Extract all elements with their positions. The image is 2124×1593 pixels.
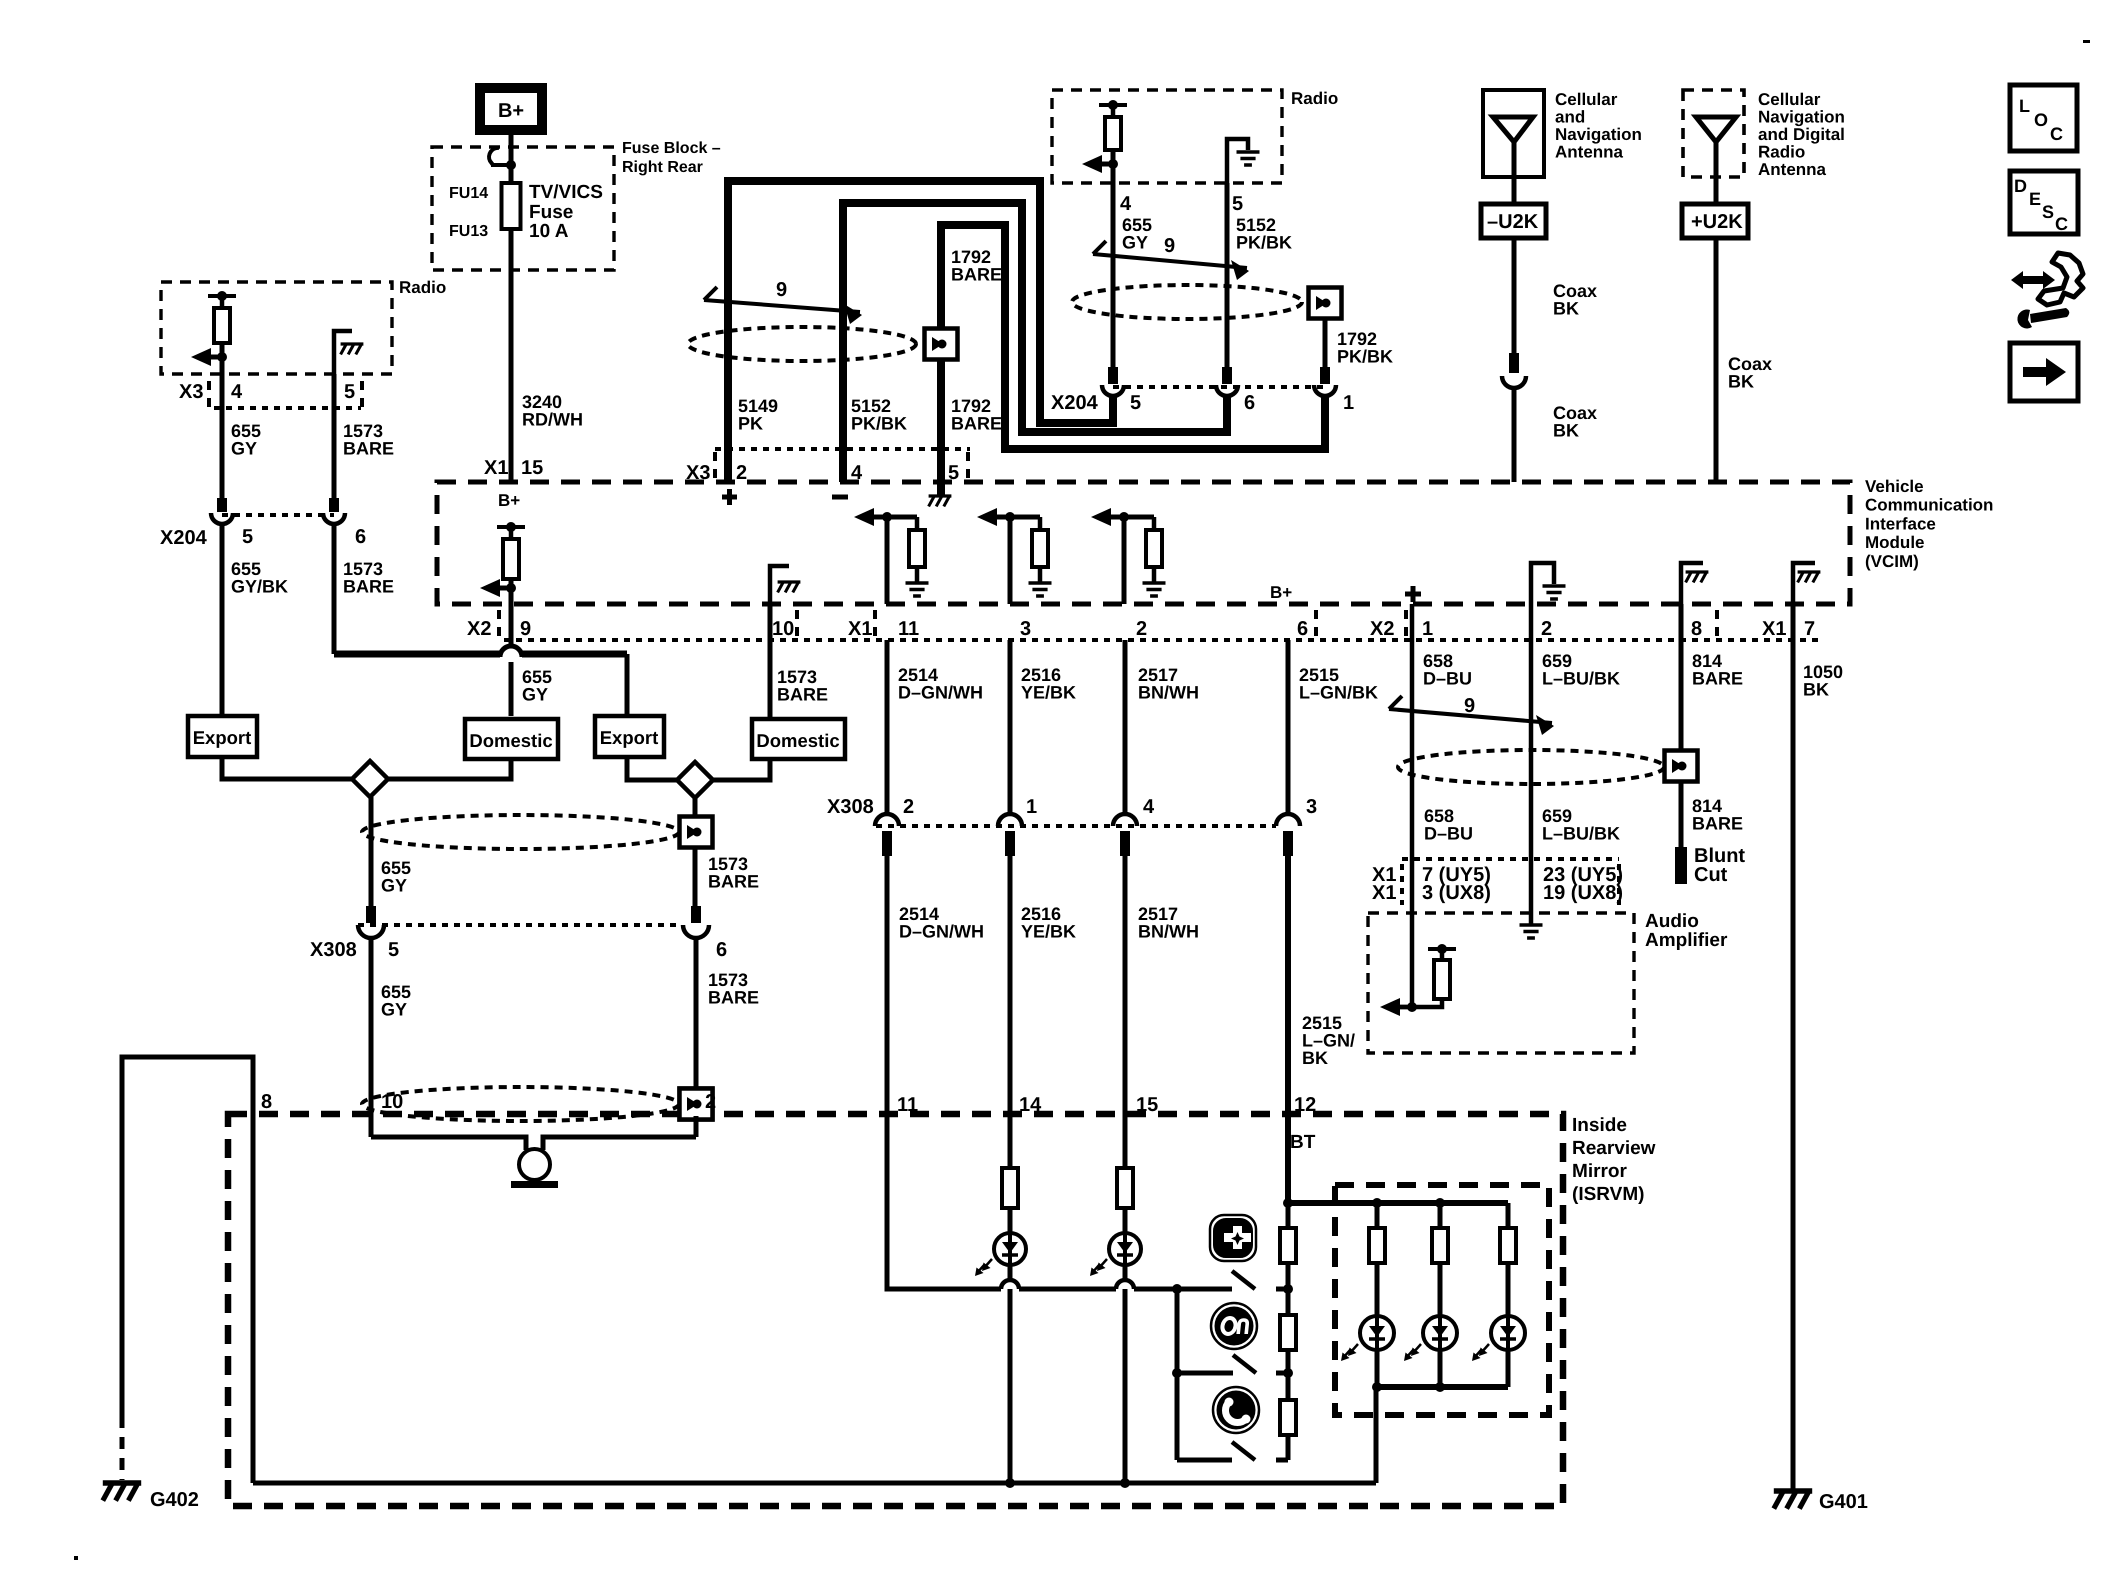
svg-text:D–GN/WH: D–GN/WH (898, 683, 983, 703)
svg-text:Right Rear: Right Rear (622, 159, 703, 176)
svg-text:GY/BK: GY/BK (231, 577, 288, 597)
svg-text:PK/BK: PK/BK (1337, 347, 1393, 367)
svg-text:4: 4 (1120, 193, 1132, 215)
svg-text:2: 2 (903, 796, 914, 818)
svg-text:X204: X204 (1051, 392, 1099, 414)
svg-text:BARE: BARE (1692, 669, 1743, 689)
svg-text:GY: GY (1122, 233, 1148, 253)
svg-text:B+: B+ (498, 491, 520, 510)
svg-text:BK: BK (1553, 421, 1579, 441)
svg-text:15: 15 (1136, 1094, 1158, 1116)
svg-text:BARE: BARE (1692, 814, 1743, 834)
svg-text:YE/BK: YE/BK (1021, 922, 1076, 942)
svg-text:BARE: BARE (777, 685, 828, 705)
svg-text:FU14: FU14 (449, 185, 488, 202)
svg-text:X204: X204 (160, 527, 208, 549)
svg-text:Inside: Inside (1572, 1115, 1627, 1136)
svg-text:BARE: BARE (708, 988, 759, 1008)
svg-text:3: 3 (1020, 618, 1031, 640)
svg-text:X1: X1 (1372, 882, 1396, 904)
svg-text:X308: X308 (310, 939, 357, 961)
svg-text:O: O (2034, 110, 2048, 130)
svg-text:6: 6 (355, 526, 366, 548)
svg-text:Cellular: Cellular (1555, 90, 1618, 109)
svg-text:Audio: Audio (1645, 911, 1699, 932)
svg-text:Export: Export (193, 727, 252, 748)
svg-text:L–BU/BK: L–BU/BK (1542, 824, 1620, 844)
svg-text:X3: X3 (179, 381, 203, 403)
svg-text:X308: X308 (827, 796, 874, 818)
svg-text:Cut: Cut (1694, 864, 1728, 886)
svg-text:–U2K: –U2K (1487, 211, 1539, 233)
svg-text:Interface: Interface (1865, 514, 1936, 533)
svg-text:BARE: BARE (708, 872, 759, 892)
svg-text:15: 15 (521, 457, 543, 479)
svg-text:PK/BK: PK/BK (1236, 233, 1292, 253)
svg-text:7: 7 (1804, 618, 1815, 640)
svg-text:BK: BK (1803, 680, 1829, 700)
svg-text:TV/VICS: TV/VICS (529, 182, 603, 203)
svg-text:Module: Module (1865, 533, 1925, 552)
svg-text:D–GN/WH: D–GN/WH (899, 922, 984, 942)
svg-text:4: 4 (1143, 796, 1155, 818)
svg-text:8: 8 (261, 1091, 272, 1113)
svg-text:BARE: BARE (343, 577, 394, 597)
svg-text:and: and (1555, 108, 1585, 127)
svg-text:10: 10 (772, 618, 794, 640)
svg-text:19 (UX8): 19 (UX8) (1543, 882, 1623, 904)
svg-text:PK/BK: PK/BK (851, 414, 907, 434)
svg-text:14: 14 (1019, 1094, 1042, 1116)
svg-text:Communication: Communication (1865, 496, 1993, 515)
svg-text:L–GN/BK: L–GN/BK (1299, 683, 1378, 703)
svg-text:5: 5 (388, 939, 399, 961)
svg-text:BK: BK (1553, 299, 1579, 319)
svg-text:Fuse Block –: Fuse Block – (622, 140, 721, 157)
svg-text:+U2K: +U2K (1691, 211, 1743, 233)
svg-text:Vehicle: Vehicle (1865, 477, 1924, 496)
svg-text:BN/WH: BN/WH (1138, 922, 1199, 942)
svg-text:2: 2 (736, 462, 747, 484)
svg-text:BK: BK (1728, 372, 1754, 392)
svg-text:PK: PK (738, 414, 763, 434)
svg-text:BARE: BARE (343, 439, 394, 459)
svg-text:FU13: FU13 (449, 223, 488, 240)
svg-text:Navigation: Navigation (1555, 125, 1642, 144)
svg-text:8: 8 (1691, 618, 1702, 640)
svg-text:9: 9 (1464, 695, 1475, 717)
svg-text:Antenna: Antenna (1555, 143, 1624, 162)
svg-text:Rearview: Rearview (1572, 1138, 1656, 1159)
svg-text:12: 12 (1294, 1094, 1316, 1116)
svg-text:3 (UX8): 3 (UX8) (1422, 882, 1491, 904)
svg-text:X1: X1 (848, 618, 872, 640)
svg-text:B+: B+ (1270, 583, 1292, 602)
svg-text:5: 5 (1232, 193, 1243, 215)
svg-text:D–BU: D–BU (1423, 669, 1472, 689)
svg-text:D–BU: D–BU (1424, 824, 1473, 844)
svg-text:Export: Export (600, 727, 659, 748)
svg-text:11: 11 (898, 618, 919, 640)
svg-text:X2: X2 (1370, 618, 1394, 640)
svg-text:GY: GY (381, 1000, 407, 1020)
svg-text:C: C (2050, 124, 2063, 144)
svg-text:Radio: Radio (399, 278, 446, 297)
svg-text:6: 6 (716, 939, 727, 961)
svg-text:2: 2 (1136, 618, 1147, 640)
svg-text:(VCIM): (VCIM) (1865, 552, 1919, 571)
svg-text:5: 5 (344, 381, 355, 403)
svg-text:BARE: BARE (951, 265, 1002, 285)
svg-text:10 A: 10 A (529, 221, 569, 242)
svg-text:X2: X2 (467, 618, 491, 640)
svg-text:L: L (2019, 96, 2030, 116)
svg-text:5: 5 (242, 526, 253, 548)
svg-text:L–BU/BK: L–BU/BK (1542, 669, 1620, 689)
svg-text:11: 11 (897, 1094, 918, 1116)
svg-text:GY: GY (381, 876, 407, 896)
svg-text:Radio: Radio (1291, 89, 1338, 108)
svg-text:BARE: BARE (951, 414, 1002, 434)
svg-text:G401: G401 (1819, 1491, 1868, 1513)
svg-text:BK: BK (1302, 1048, 1328, 1068)
svg-text:BN/WH: BN/WH (1138, 683, 1199, 703)
svg-text:Domestic: Domestic (469, 730, 552, 751)
svg-text:S: S (2042, 202, 2054, 222)
svg-text:10: 10 (381, 1091, 403, 1113)
svg-text:B+: B+ (498, 100, 524, 122)
svg-text:6: 6 (1244, 392, 1255, 414)
svg-text:Fuse: Fuse (529, 202, 573, 223)
svg-text:Domestic: Domestic (756, 730, 839, 751)
svg-text:3: 3 (1306, 796, 1317, 818)
svg-text:RD/WH: RD/WH (522, 410, 583, 430)
svg-text:4: 4 (231, 381, 243, 403)
svg-text:X1: X1 (484, 457, 508, 479)
svg-text:Cellular: Cellular (1758, 90, 1821, 109)
svg-text:E: E (2029, 189, 2041, 209)
svg-text:BT: BT (1290, 1132, 1316, 1153)
svg-text:9: 9 (520, 618, 531, 640)
svg-text:5: 5 (1130, 392, 1141, 414)
svg-text:and Digital: and Digital (1758, 125, 1845, 144)
svg-text:Amplifier: Amplifier (1645, 930, 1728, 951)
svg-text:Mirror: Mirror (1572, 1161, 1628, 1182)
svg-text:D: D (2014, 176, 2027, 196)
svg-text:6: 6 (1297, 618, 1308, 640)
svg-text:X1: X1 (1762, 618, 1786, 640)
svg-text:Navigation: Navigation (1758, 108, 1845, 127)
svg-text:1: 1 (1422, 618, 1433, 640)
svg-text:2: 2 (1541, 618, 1552, 640)
svg-text:9: 9 (1164, 235, 1175, 257)
svg-text:Antenna: Antenna (1758, 160, 1827, 179)
svg-text:9: 9 (776, 279, 787, 301)
svg-text:Radio: Radio (1758, 143, 1805, 162)
svg-text:G402: G402 (150, 1489, 199, 1511)
svg-text:GY: GY (231, 439, 257, 459)
svg-text:GY: GY (522, 685, 548, 705)
svg-text:C: C (2055, 214, 2068, 234)
svg-text:2: 2 (705, 1091, 716, 1113)
svg-text:YE/BK: YE/BK (1021, 683, 1076, 703)
svg-text:(ISRVM): (ISRVM) (1572, 1184, 1644, 1205)
svg-text:1: 1 (1343, 392, 1354, 414)
svg-text:1: 1 (1026, 796, 1037, 818)
